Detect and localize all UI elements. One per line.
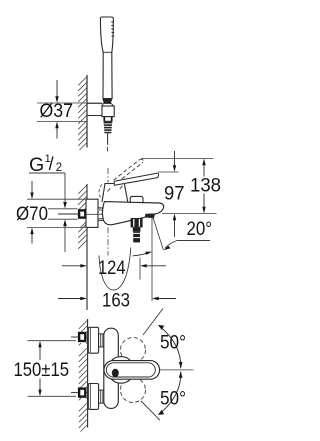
dashes inside dome <box>108 186 123 192</box>
svg-text:163: 163 <box>102 291 130 312</box>
supply pipe stubs <box>71 337 78 393</box>
svg-text:150±15: 150±15 <box>14 360 70 381</box>
escutcheon top (front view) <box>88 327 98 353</box>
dashed lever position circle bottom <box>121 378 146 403</box>
20 degree reference vertical line <box>151 218 153 302</box>
dashed raised lever <box>114 159 144 183</box>
lever pill inner line <box>106 363 155 377</box>
holder bracket arm <box>88 103 103 115</box>
hose crimp ribs (dark) <box>104 122 113 134</box>
label G 1/2 <box>29 153 62 176</box>
supply pipe stub <box>58 213 78 215</box>
holder funnel <box>101 103 113 106</box>
svg-text:Ø70: Ø70 <box>16 204 48 225</box>
dimension 97 <box>174 151 176 237</box>
svg-text:97: 97 <box>164 184 185 205</box>
cartridge dome circle (front view) <box>108 357 135 384</box>
holder block <box>102 106 114 117</box>
mixer body slab (front view) <box>104 328 119 408</box>
union nut (side view) <box>98 208 106 220</box>
lever handle pill (front view) <box>104 361 160 380</box>
svg-text:/: / <box>49 154 54 174</box>
centerline (dash-dot) above and below body <box>107 168 109 256</box>
G 1/2 leader arrows <box>64 173 66 252</box>
centerline right of lever <box>160 369 194 371</box>
cartridge dome (side view) <box>102 184 128 203</box>
dimension 163 <box>58 298 176 300</box>
dimension Ø70 extension lines <box>27 199 87 227</box>
svg-text:Ø37: Ø37 <box>40 101 74 122</box>
spout outlet face (dark) <box>145 214 155 218</box>
dimension 138 <box>203 165 205 207</box>
extension line (lever top) for 97 <box>158 171 179 173</box>
50 degree arc bottom <box>161 372 181 413</box>
svg-text:G: G <box>29 154 44 176</box>
lever end dark oval <box>112 369 119 377</box>
extension/centerlines for 150 dimension <box>28 341 77 397</box>
diverter knob on body <box>130 196 143 203</box>
supply nut bottom (thick) <box>79 389 85 397</box>
svg-text:50°: 50° <box>160 388 186 409</box>
extension line bottom (spout) for 97/138 <box>162 213 217 215</box>
pipe centerline through escutcheon <box>86 213 99 215</box>
G 1/2 reference lines at nut <box>48 209 78 219</box>
svg-text:2: 2 <box>56 162 62 174</box>
svg-text:50°: 50° <box>160 333 186 354</box>
extension line for 124 <box>139 258 141 280</box>
G 1/2 leader underline <box>29 172 65 174</box>
wall (middle section) <box>86 184 88 310</box>
wall (top section) <box>86 75 88 148</box>
dimension Ø70 arrows <box>31 181 33 244</box>
50 degree axis line top <box>143 309 163 336</box>
spout swivel arc <box>99 248 131 291</box>
escutcheon (side view) <box>86 199 98 227</box>
diverter hose connection below body (dark stack) <box>131 218 143 242</box>
union nut top (front view) <box>99 334 104 347</box>
wall (bottom section) <box>87 319 89 428</box>
svg-text:124: 124 <box>98 258 126 279</box>
supply nut top (thick) <box>79 333 85 341</box>
svg-text:20°: 20° <box>187 219 213 240</box>
extension line top (raised lever) for 138 <box>141 158 214 160</box>
50 degree axis line bottom <box>141 401 160 420</box>
hand shower head and handle <box>100 17 113 99</box>
escutcheon bottom (front view) <box>88 384 98 410</box>
svg-text:138: 138 <box>190 176 221 197</box>
union nut bottom (front view) <box>99 390 104 403</box>
dashed lever swing arc (left of dome) <box>99 185 102 198</box>
dimension Ø37 arrows <box>56 80 58 139</box>
mixer body (side view) <box>102 202 163 225</box>
20 degree arc with arrow <box>133 253 150 256</box>
dimension 150±15 arrows <box>39 347 41 390</box>
wall hatching (middle section) <box>78 185 87 249</box>
dimension Ø37 extension lines <box>37 103 102 122</box>
spray face tick marks <box>111 22 114 36</box>
20 degree leader with arrow <box>165 241 210 249</box>
20 degree slant line <box>153 218 163 251</box>
wall hatching (top section) <box>78 77 87 151</box>
hose nut <box>104 117 112 122</box>
wall hatching (bottom section) <box>79 320 88 432</box>
dashed lever position circle top <box>121 338 146 363</box>
lever blade (side view) <box>114 173 158 185</box>
hose line below holder <box>107 134 109 145</box>
50 degree arc top <box>161 327 181 368</box>
shower inlet cone (dark) <box>102 99 112 104</box>
supply nut (thick, left of wall) <box>79 210 85 217</box>
dimension 124 <box>62 265 166 267</box>
